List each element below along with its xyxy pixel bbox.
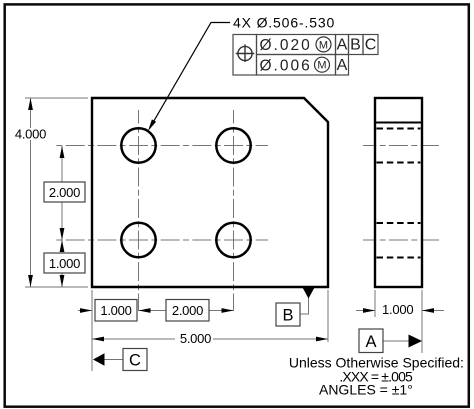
svg-text:1.000: 1.000: [100, 303, 131, 318]
svg-text:4.000: 4.000: [15, 127, 46, 142]
svg-text:ANGLES = ±1°: ANGLES = ±1°: [319, 382, 413, 398]
svg-text:B: B: [350, 37, 361, 54]
svg-text:C: C: [129, 352, 141, 370]
svg-text:2.000: 2.000: [172, 303, 203, 318]
svg-text:M: M: [317, 60, 326, 72]
svg-text:B: B: [282, 307, 293, 325]
svg-text:M: M: [319, 39, 328, 51]
svg-text:A: A: [337, 57, 348, 74]
svg-text:Ø.020: Ø.020: [260, 37, 312, 54]
svg-text:2.000: 2.000: [49, 185, 80, 200]
svg-text:1.000: 1.000: [382, 302, 413, 317]
svg-text:A: A: [365, 333, 376, 351]
svg-text:Ø.006: Ø.006: [260, 57, 312, 74]
svg-text:4X Ø.506-.530: 4X Ø.506-.530: [233, 15, 335, 31]
svg-text:C: C: [365, 37, 377, 54]
svg-text:1.000: 1.000: [49, 256, 80, 271]
svg-text:A: A: [337, 37, 348, 54]
svg-text:5.000: 5.000: [180, 331, 211, 346]
